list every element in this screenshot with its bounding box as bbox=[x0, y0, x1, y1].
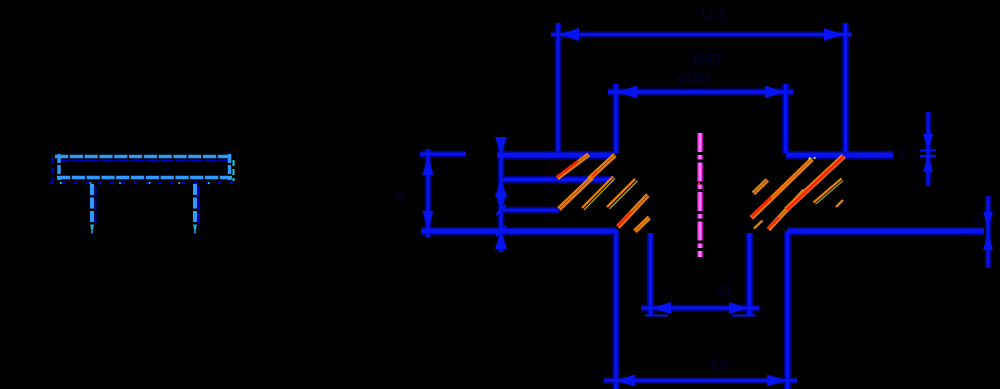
svg-text:Ø57: Ø57 bbox=[693, 52, 723, 69]
hatch stroke left B1 bbox=[558, 177, 593, 211]
left view: flange bar bottom dashed line bbox=[50, 178, 236, 184]
halo underlays for section view blue lines bbox=[420, 23, 988, 389]
left view: flange bar top dashed line bbox=[55, 157, 232, 161]
svg-text:57: 57 bbox=[710, 359, 727, 376]
svg-text:113: 113 bbox=[698, 5, 725, 24]
left view: left edge bbox=[53, 154, 60, 184]
svg-text:5: 5 bbox=[898, 145, 906, 161]
hatch stroke right R5 bbox=[814, 179, 844, 205]
center line red dot bbox=[698, 182, 701, 185]
section view: top dim extension line right x=845 bbox=[844, 23, 847, 152]
section view: center line (magenta dash-dot) x=700 bbox=[697, 133, 702, 257]
svg-text:5: 5 bbox=[972, 213, 980, 229]
section view: flange top surface far-left stub bbox=[420, 153, 466, 156]
svg-text:Ø40: Ø40 bbox=[678, 69, 710, 88]
section view: bottom plate thickness dim x=988 bbox=[972, 196, 993, 268]
section view: inner step line y=210 bbox=[503, 209, 559, 212]
section view: top dimension line y=34.5 bbox=[551, 28, 852, 41]
hatch stroke left C1 bbox=[607, 179, 638, 209]
hatch stroke right R2 bbox=[750, 157, 816, 219]
hatch stroke right R6 bbox=[836, 200, 843, 207]
hatch stroke right R7 bbox=[754, 221, 763, 229]
section view: lower box outer wall left x=616 bbox=[614, 229, 617, 389]
left view: right edge bbox=[230, 154, 234, 181]
section view: flange bottom surface right y=231 bbox=[787, 229, 984, 234]
section view: lower box outer wall right x=787.5 bbox=[786, 231, 789, 389]
hatch stroke right R3 bbox=[768, 190, 806, 231]
section view: chain dim vertical x=501 bbox=[396, 137, 507, 252]
section view: bore bottom tick left bbox=[645, 315, 668, 317]
hatch stroke right R1 bbox=[753, 179, 769, 194]
section view: lower bore wall right x=749.5 bbox=[748, 233, 752, 315]
section view: bottom dim line y=380.5 bbox=[604, 359, 797, 387]
svg-text:8: 8 bbox=[396, 188, 404, 205]
section view: lower bore wall left x=650.5 bbox=[649, 233, 653, 315]
hatch stroke right R4 (big red) bbox=[785, 155, 845, 211]
hatch stroke left C2 bbox=[617, 194, 649, 228]
section view: flange bottom surface left y=231 bbox=[421, 229, 616, 234]
section view: hole edge extension left x=616 bbox=[614, 84, 617, 153]
hatch stroke left B2 bbox=[582, 177, 615, 211]
left view: right leg (hidden dashed) bbox=[194, 184, 199, 234]
section view: bore dim line y=308 bbox=[641, 282, 759, 314]
svg-text:40: 40 bbox=[714, 282, 731, 299]
hatch stroke left A1 bbox=[557, 154, 590, 180]
hatch stroke left C3 bbox=[634, 217, 650, 233]
section view: bore bottom tick right bbox=[732, 315, 755, 317]
section view: inner step line y=179.5 bbox=[503, 178, 614, 181]
section view: hole edge extension right x=786 bbox=[784, 84, 787, 153]
hatch stroke left A2 bbox=[588, 154, 616, 180]
section view: overall height dim x=428 bbox=[423, 149, 434, 237]
section view: second dimension line y=92 bbox=[608, 86, 793, 99]
section view: top dim extension line left x=558 bbox=[557, 23, 560, 152]
section view: flange top surface right segment y=155 bbox=[786, 153, 893, 158]
section view: flange top surface left segment y=155 bbox=[497, 153, 615, 158]
left view: left leg (hidden dashed) bbox=[91, 184, 96, 234]
section view: top plate thickness dim x=928 bbox=[898, 112, 936, 186]
